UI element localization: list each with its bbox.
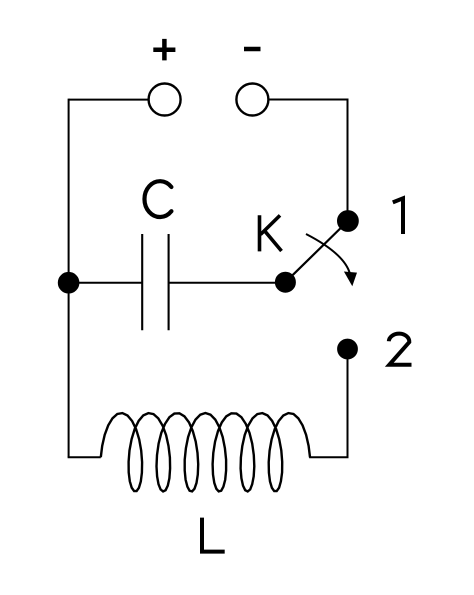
switch contact 1 dot	[338, 211, 359, 232]
capacitor C left plate	[141, 234, 143, 330]
label + (battery positive terminal)	[153, 39, 175, 61]
wire: + terminal to top-left corner	[69, 99, 149, 101]
label - (battery negative terminal)	[244, 47, 261, 52]
wire: right rail down to contact 1	[347, 99, 349, 222]
wire: capacitor right plate to switch pole	[169, 282, 286, 284]
battery terminal - (open circle)	[236, 84, 268, 116]
capacitor C right plate	[168, 234, 170, 330]
inductor L coil	[101, 413, 310, 492]
switch K arm (pole to contact 1)	[285, 221, 348, 282]
switch contact 2 dot	[338, 339, 358, 359]
wire: left rail down to bottom-left corner	[68, 99, 70, 458]
label 1 (contact 1)	[393, 198, 403, 234]
node A (junction dot, left rail / capacitor)	[58, 272, 79, 293]
wire: bottom-left corner to inductor	[68, 456, 101, 458]
switch K pole dot	[275, 272, 295, 292]
label C (capacitor)	[144, 181, 171, 217]
label K (switch)	[260, 215, 282, 251]
wire: bottom-right corner to inductor	[309, 456, 348, 458]
wire: - terminal to top-right corner	[268, 99, 347, 101]
wire: contact 2 down to bottom-right corner	[347, 349, 349, 457]
switch throw arc arrow	[306, 234, 357, 286]
wire: node A to capacitor left plate	[69, 282, 143, 284]
battery terminal + (open circle)	[149, 84, 181, 116]
label 2 (contact 2)	[389, 334, 412, 365]
label L (inductor)	[202, 518, 225, 552]
